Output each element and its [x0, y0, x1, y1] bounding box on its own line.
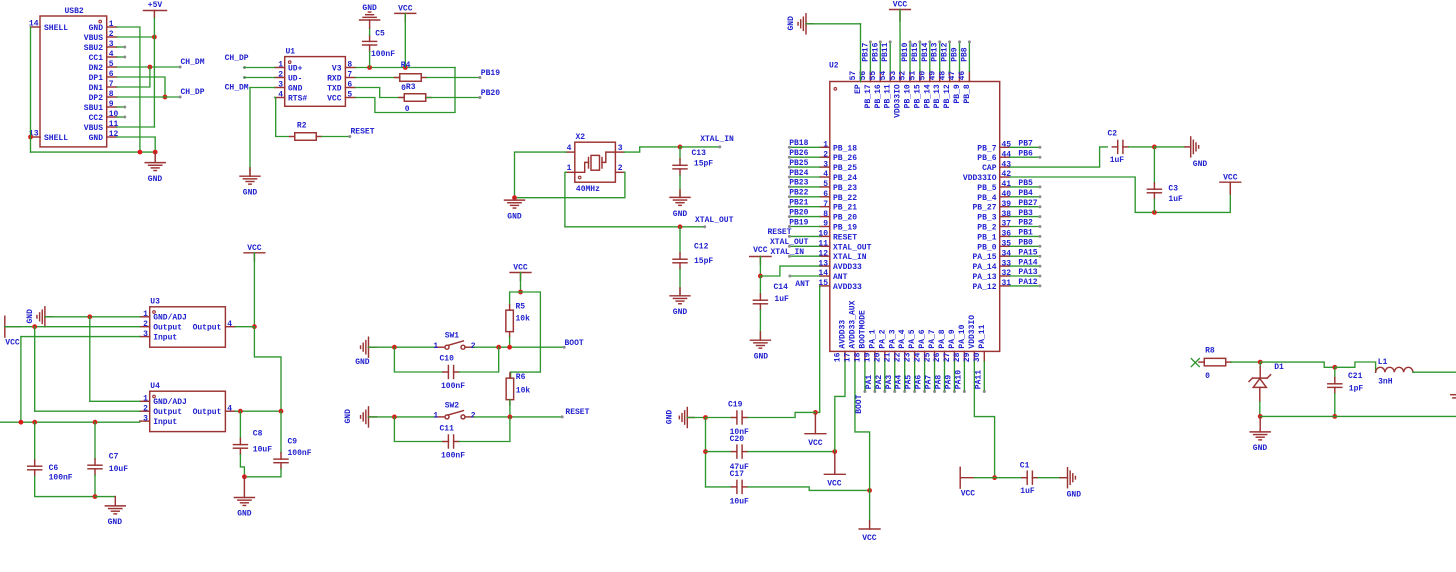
svg-text:10: 10 — [818, 230, 828, 239]
svg-text:16: 16 — [834, 352, 843, 362]
svg-text:11: 11 — [818, 240, 828, 249]
wire — [515, 152, 567, 198]
junction — [19, 420, 24, 425]
svg-text:C19: C19 — [728, 401, 743, 410]
svg-text:1pF: 1pF — [1349, 384, 1364, 393]
node CH_DM — [117, 58, 205, 68]
node PB15 — [911, 40, 922, 71]
junction — [252, 324, 257, 329]
svg-text:11: 11 — [109, 120, 119, 129]
svg-text:GND/ADJ: GND/ADJ — [153, 314, 187, 323]
svg-text:PB14: PB14 — [921, 42, 930, 61]
node CH_DP — [225, 54, 275, 69]
svg-text:RESET: RESET — [767, 228, 791, 237]
wire — [510, 292, 521, 305]
junction — [507, 345, 512, 350]
wire — [565, 172, 566, 227]
svg-text:VCC: VCC — [327, 94, 342, 103]
svg-text:PB_1: PB_1 — [977, 233, 996, 242]
node PA12 — [1010, 278, 1042, 287]
svg-text:+5V: +5V — [148, 1, 163, 10]
svg-text:C8: C8 — [253, 430, 263, 439]
svg-text:C5: C5 — [375, 30, 385, 39]
node PA5 — [905, 361, 917, 393]
svg-text:GND: GND — [673, 210, 688, 219]
resistor R2 — [290, 121, 322, 140]
wire — [835, 361, 845, 451]
junction — [1332, 414, 1337, 419]
wire — [117, 56, 127, 59]
node XTAL_IN — [678, 135, 734, 149]
svg-text:GND: GND — [1193, 160, 1208, 169]
junction — [153, 150, 158, 155]
node PB23 — [788, 179, 820, 189]
resistor R4 — [355, 61, 426, 93]
capacitor C21 — [1328, 367, 1364, 393]
capacitor C1 — [995, 462, 1038, 496]
wire — [1335, 362, 1376, 372]
svg-text:PA_11: PA_11 — [978, 324, 987, 348]
node PB8 — [960, 40, 971, 71]
svg-text:PA14: PA14 — [1018, 258, 1037, 267]
svg-text:VCC: VCC — [827, 480, 842, 489]
node PB12 — [941, 40, 952, 71]
node PB17 — [861, 40, 872, 71]
junction — [1258, 360, 1263, 365]
svg-text:PB8: PB8 — [960, 47, 969, 62]
svg-text:GND: GND — [355, 358, 370, 367]
junction — [758, 274, 763, 279]
svg-text:3: 3 — [109, 40, 114, 49]
svg-text:1uF: 1uF — [1168, 195, 1183, 204]
svg-text:4: 4 — [823, 170, 828, 179]
svg-text:PB_25: PB_25 — [833, 164, 857, 173]
wire — [705, 418, 707, 487]
svg-text:AVDD33: AVDD33 — [839, 320, 848, 349]
U2 left pins 1-15 — [818, 141, 871, 292]
svg-text:XTAL_OUT: XTAL_OUT — [770, 238, 809, 247]
svg-text:7: 7 — [109, 80, 114, 89]
junction — [392, 345, 397, 350]
svg-text:37: 37 — [1002, 220, 1012, 229]
diode D1 — [1249, 362, 1284, 416]
svg-text:34: 34 — [1002, 249, 1012, 258]
svg-text:1uF: 1uF — [1020, 487, 1035, 496]
ground — [1250, 416, 1270, 453]
U1 pins — [275, 61, 356, 104]
svg-text:GND: GND — [1253, 444, 1268, 453]
wire — [117, 46, 127, 49]
svg-text:GND: GND — [754, 353, 769, 362]
svg-text:XTAL_IN: XTAL_IN — [833, 253, 867, 262]
svg-text:VCC: VCC — [1223, 173, 1238, 182]
svg-text:PA9: PA9 — [944, 375, 953, 390]
svg-text:PB17: PB17 — [861, 42, 870, 61]
svg-text:DN1: DN1 — [89, 84, 104, 93]
svg-text:PB19: PB19 — [481, 69, 500, 78]
svg-text:VBUS: VBUS — [84, 124, 103, 133]
wire — [31, 151, 156, 153]
wire — [355, 68, 455, 113]
svg-text:TXD: TXD — [327, 84, 342, 93]
ground — [145, 152, 165, 184]
svg-text:DN2: DN2 — [89, 64, 104, 73]
svg-text:GND: GND — [89, 24, 104, 33]
svg-text:1: 1 — [143, 310, 148, 319]
wire — [1153, 199, 1155, 212]
node PB18 — [788, 139, 820, 149]
node PA10 — [954, 361, 966, 393]
svg-text:12: 12 — [818, 249, 828, 258]
svg-text:L1: L1 — [1378, 358, 1388, 367]
node PB6 — [1010, 149, 1042, 158]
svg-text:PA4: PA4 — [895, 375, 904, 390]
capacitor C17 — [706, 470, 750, 506]
svg-text:1: 1 — [433, 412, 438, 421]
node RESET — [767, 228, 819, 238]
ground — [670, 288, 690, 317]
wire — [30, 27, 32, 152]
junction — [367, 65, 372, 70]
inductor L1 — [1376, 358, 1413, 387]
svg-text:CC1: CC1 — [89, 54, 104, 63]
junction — [138, 150, 143, 155]
wire — [254, 327, 281, 412]
wire — [760, 266, 819, 276]
wire — [5, 326, 140, 328]
ground — [1060, 468, 1081, 500]
power VCC — [750, 246, 771, 264]
wire — [35, 476, 95, 497]
ground — [105, 497, 125, 527]
svg-text:44: 44 — [1002, 150, 1012, 159]
node PB19 — [788, 218, 820, 228]
node PA15 — [1010, 248, 1042, 257]
wire — [117, 106, 127, 109]
node PA8 — [935, 361, 947, 393]
svg-text:Output: Output — [193, 408, 222, 417]
svg-text:PA_8: PA_8 — [938, 329, 947, 348]
svg-text:PA10: PA10 — [954, 370, 963, 389]
node PB19 — [427, 69, 501, 79]
capacitor C2 — [1108, 129, 1129, 165]
svg-text:PB6: PB6 — [1018, 149, 1033, 158]
svg-text:PA11: PA11 — [974, 370, 983, 389]
junction — [1258, 414, 1263, 419]
capacitor C10 — [394, 347, 498, 391]
svg-text:GND: GND — [507, 212, 522, 221]
ground — [670, 190, 690, 219]
svg-text:GND: GND — [89, 134, 104, 143]
svg-text:PB_21: PB_21 — [833, 204, 857, 213]
svg-text:C11: C11 — [440, 424, 455, 433]
U2 top pins 57-46 — [849, 71, 972, 118]
junction — [508, 415, 513, 420]
svg-text:VBUS: VBUS — [84, 34, 103, 43]
wire — [369, 346, 436, 348]
ground — [355, 337, 376, 367]
wire — [153, 18, 155, 127]
svg-text:VCC: VCC — [753, 246, 768, 255]
junction — [279, 409, 284, 414]
svg-text:AVDD33: AVDD33 — [833, 283, 862, 292]
svg-text:PB0: PB0 — [1018, 239, 1033, 248]
svg-text:PB_2: PB_2 — [977, 224, 996, 233]
node CH_DM — [225, 83, 275, 92]
wire — [35, 327, 140, 412]
node PA9 — [944, 361, 956, 393]
svg-text:PB26: PB26 — [789, 149, 808, 158]
capacitor C13 — [673, 147, 713, 175]
power VCC — [960, 467, 975, 498]
power VCC — [5, 316, 20, 347]
wire — [1154, 146, 1185, 148]
svg-text:PA_3: PA_3 — [888, 329, 897, 348]
capacitor C6 — [28, 422, 73, 482]
power VCC — [395, 5, 416, 22]
svg-text:100nF: 100nF — [288, 449, 312, 458]
svg-text:PB_15: PB_15 — [913, 84, 922, 108]
wire — [235, 410, 281, 412]
node CH_DP — [117, 88, 205, 98]
svg-text:38: 38 — [1002, 210, 1012, 219]
svg-text:9: 9 — [109, 100, 114, 109]
svg-text:0: 0 — [1205, 372, 1210, 381]
node PB5 — [1010, 179, 1042, 188]
svg-text:PB20: PB20 — [789, 208, 808, 217]
svg-text:PB_9: PB_9 — [953, 84, 962, 103]
svg-text:8: 8 — [823, 210, 828, 219]
svg-text:6: 6 — [347, 81, 352, 90]
svg-text:3: 3 — [823, 160, 828, 169]
svg-text:PB_19: PB_19 — [833, 224, 857, 233]
svg-text:2: 2 — [109, 30, 114, 39]
wire — [369, 416, 436, 418]
svg-text:2: 2 — [471, 412, 476, 421]
wire — [1038, 477, 1060, 479]
svg-text:PB3: PB3 — [1018, 209, 1033, 218]
junction — [1332, 365, 1337, 370]
svg-text:C12: C12 — [694, 242, 709, 251]
junction — [238, 409, 243, 414]
node RESET — [561, 408, 590, 418]
capacitor C11 — [394, 417, 510, 461]
svg-text:R6: R6 — [516, 373, 526, 382]
svg-text:PA_15: PA_15 — [972, 253, 996, 262]
svg-text:PB20: PB20 — [481, 89, 500, 98]
svg-text:PB_6: PB_6 — [977, 154, 996, 163]
svg-text:GND: GND — [243, 188, 258, 197]
svg-text:VCC: VCC — [893, 1, 908, 10]
svg-text:GND: GND — [673, 308, 688, 317]
wire — [240, 454, 244, 476]
svg-text:10k: 10k — [516, 315, 531, 324]
svg-text:100nF: 100nF — [371, 50, 395, 59]
no-connect X — [1191, 359, 1199, 367]
junction — [242, 474, 247, 479]
svg-text:3: 3 — [278, 81, 283, 90]
node PA2 — [875, 361, 887, 393]
svg-text:AVDD33_AUX: AVDD33_AUX — [848, 300, 857, 348]
power VCC — [1220, 173, 1241, 194]
wire — [748, 487, 870, 491]
node ANT — [788, 275, 819, 290]
svg-text:5: 5 — [109, 60, 114, 69]
svg-text:36: 36 — [1002, 230, 1012, 239]
svg-text:PB2: PB2 — [1018, 219, 1033, 228]
svg-text:4: 4 — [278, 91, 283, 100]
svg-text:C3: C3 — [1168, 185, 1178, 194]
node PA13 — [1010, 268, 1042, 277]
svg-text:6: 6 — [109, 70, 114, 79]
svg-text:6: 6 — [823, 190, 828, 199]
capacitor C7 — [88, 422, 128, 475]
node PB7 — [1010, 140, 1042, 149]
svg-text:45: 45 — [1002, 141, 1012, 150]
svg-text:R5: R5 — [516, 303, 526, 312]
wire — [244, 469, 281, 477]
svg-text:PB18: PB18 — [789, 139, 808, 148]
svg-text:PB7: PB7 — [1018, 140, 1033, 149]
svg-text:VDD33IO: VDD33IO — [894, 84, 903, 118]
svg-text:9: 9 — [823, 220, 828, 229]
svg-text:SBU1: SBU1 — [84, 104, 103, 113]
svg-text:5: 5 — [823, 180, 828, 189]
resistor R5 — [506, 303, 530, 337]
wire — [235, 326, 254, 328]
node PB1 — [1010, 229, 1042, 238]
svg-text:VCC: VCC — [808, 439, 823, 448]
svg-text:PA1: PA1 — [865, 375, 874, 390]
svg-text:C6: C6 — [49, 464, 59, 473]
node XTAL_OUT — [678, 216, 734, 229]
svg-text:CH_DP: CH_DP — [181, 88, 205, 97]
svg-text:C7: C7 — [109, 452, 119, 461]
svg-text:PB12: PB12 — [941, 42, 950, 61]
svg-text:35: 35 — [1002, 240, 1012, 249]
svg-text:41: 41 — [1002, 180, 1012, 189]
svg-text:PB23: PB23 — [789, 179, 808, 188]
svg-text:PB_5: PB_5 — [977, 184, 996, 193]
svg-text:PB_3: PB_3 — [977, 214, 996, 223]
svg-text:C9: C9 — [288, 438, 298, 447]
connector USB2 — [40, 7, 107, 147]
svg-text:43: 43 — [1002, 160, 1012, 169]
svg-text:40: 40 — [1002, 190, 1012, 199]
svg-text:XTAL_IN: XTAL_IN — [700, 135, 734, 144]
svg-text:PB27: PB27 — [1018, 199, 1037, 208]
wire — [1010, 147, 1108, 167]
svg-text:PB11: PB11 — [881, 42, 890, 61]
capacitor C3 — [1147, 147, 1183, 204]
svg-text:10uF: 10uF — [109, 465, 128, 474]
capacitor C8 — [233, 411, 272, 454]
ground — [360, 4, 380, 28]
svg-text:PB4: PB4 — [1018, 189, 1033, 198]
wire — [679, 175, 681, 197]
ground — [787, 14, 813, 34]
svg-text:PB15: PB15 — [911, 42, 920, 61]
wire — [474, 416, 561, 418]
svg-text:57: 57 — [849, 71, 858, 81]
svg-text:32: 32 — [1002, 269, 1012, 278]
svg-text:PA7: PA7 — [925, 375, 934, 390]
svg-text:DP2: DP2 — [89, 94, 104, 103]
wire — [1129, 146, 1152, 148]
svg-text:GND: GND — [666, 410, 675, 425]
wire — [515, 172, 625, 197]
wire — [249, 88, 251, 177]
ground — [750, 332, 770, 362]
svg-text:UD-: UD- — [288, 74, 302, 83]
node XTAL_OUT — [770, 238, 820, 248]
svg-text:40MHz: 40MHz — [576, 185, 600, 194]
svg-text:PA_6: PA_6 — [918, 329, 927, 348]
svg-text:15pF: 15pF — [694, 257, 713, 266]
junction — [813, 410, 818, 415]
wire — [117, 27, 140, 152]
svg-text:RTS#: RTS# — [288, 94, 307, 103]
pin stub — [566, 151, 575, 153]
svg-text:PA_2: PA_2 — [878, 329, 887, 348]
svg-text:C1: C1 — [1020, 462, 1030, 471]
junction — [163, 95, 168, 100]
wire — [404, 13, 406, 67]
pin stub — [615, 171, 624, 173]
svg-text:2: 2 — [471, 342, 476, 351]
junction — [518, 290, 523, 295]
svg-text:VDD33IO: VDD33IO — [968, 315, 977, 349]
svg-text:PA6: PA6 — [915, 375, 924, 390]
svg-text:ANT: ANT — [833, 273, 848, 282]
svg-text:GND: GND — [787, 16, 796, 31]
svg-text:U4: U4 — [150, 382, 160, 391]
node PB16 — [871, 40, 882, 71]
svg-text:3: 3 — [143, 414, 148, 423]
wire — [748, 451, 835, 453]
wire — [474, 346, 563, 348]
ground — [505, 198, 525, 222]
svg-text:C13: C13 — [692, 149, 707, 158]
svg-text:5: 5 — [347, 91, 352, 100]
svg-text:1: 1 — [278, 61, 283, 70]
svg-text:CH_DP: CH_DP — [225, 54, 249, 63]
resistor R3 — [355, 83, 431, 114]
svg-text:PB_20: PB_20 — [833, 214, 857, 223]
svg-text:PB_17: PB_17 — [864, 84, 873, 108]
svg-text:BOOTMODE: BOOTMODE — [858, 310, 867, 349]
capacitor C12 — [673, 227, 713, 269]
node PB4 — [1010, 189, 1042, 198]
svg-text:ANT: ANT — [795, 280, 810, 289]
node PB3 — [1010, 209, 1042, 218]
svg-text:PB19: PB19 — [789, 218, 808, 227]
svg-text:U3: U3 — [150, 298, 160, 307]
junction — [992, 475, 997, 480]
svg-text:4: 4 — [227, 404, 232, 413]
svg-text:PA_13: PA_13 — [972, 273, 996, 282]
svg-text:PB13: PB13 — [931, 42, 940, 61]
svg-text:3nH: 3nH — [1378, 377, 1393, 386]
node BOOT — [563, 339, 584, 349]
node PB10 — [901, 40, 912, 71]
svg-text:SW2: SW2 — [445, 401, 460, 410]
X2 pin numbers — [567, 144, 623, 173]
wire — [855, 361, 870, 490]
svg-text:7: 7 — [823, 200, 828, 209]
junction — [703, 415, 708, 420]
svg-text:12: 12 — [109, 130, 119, 139]
